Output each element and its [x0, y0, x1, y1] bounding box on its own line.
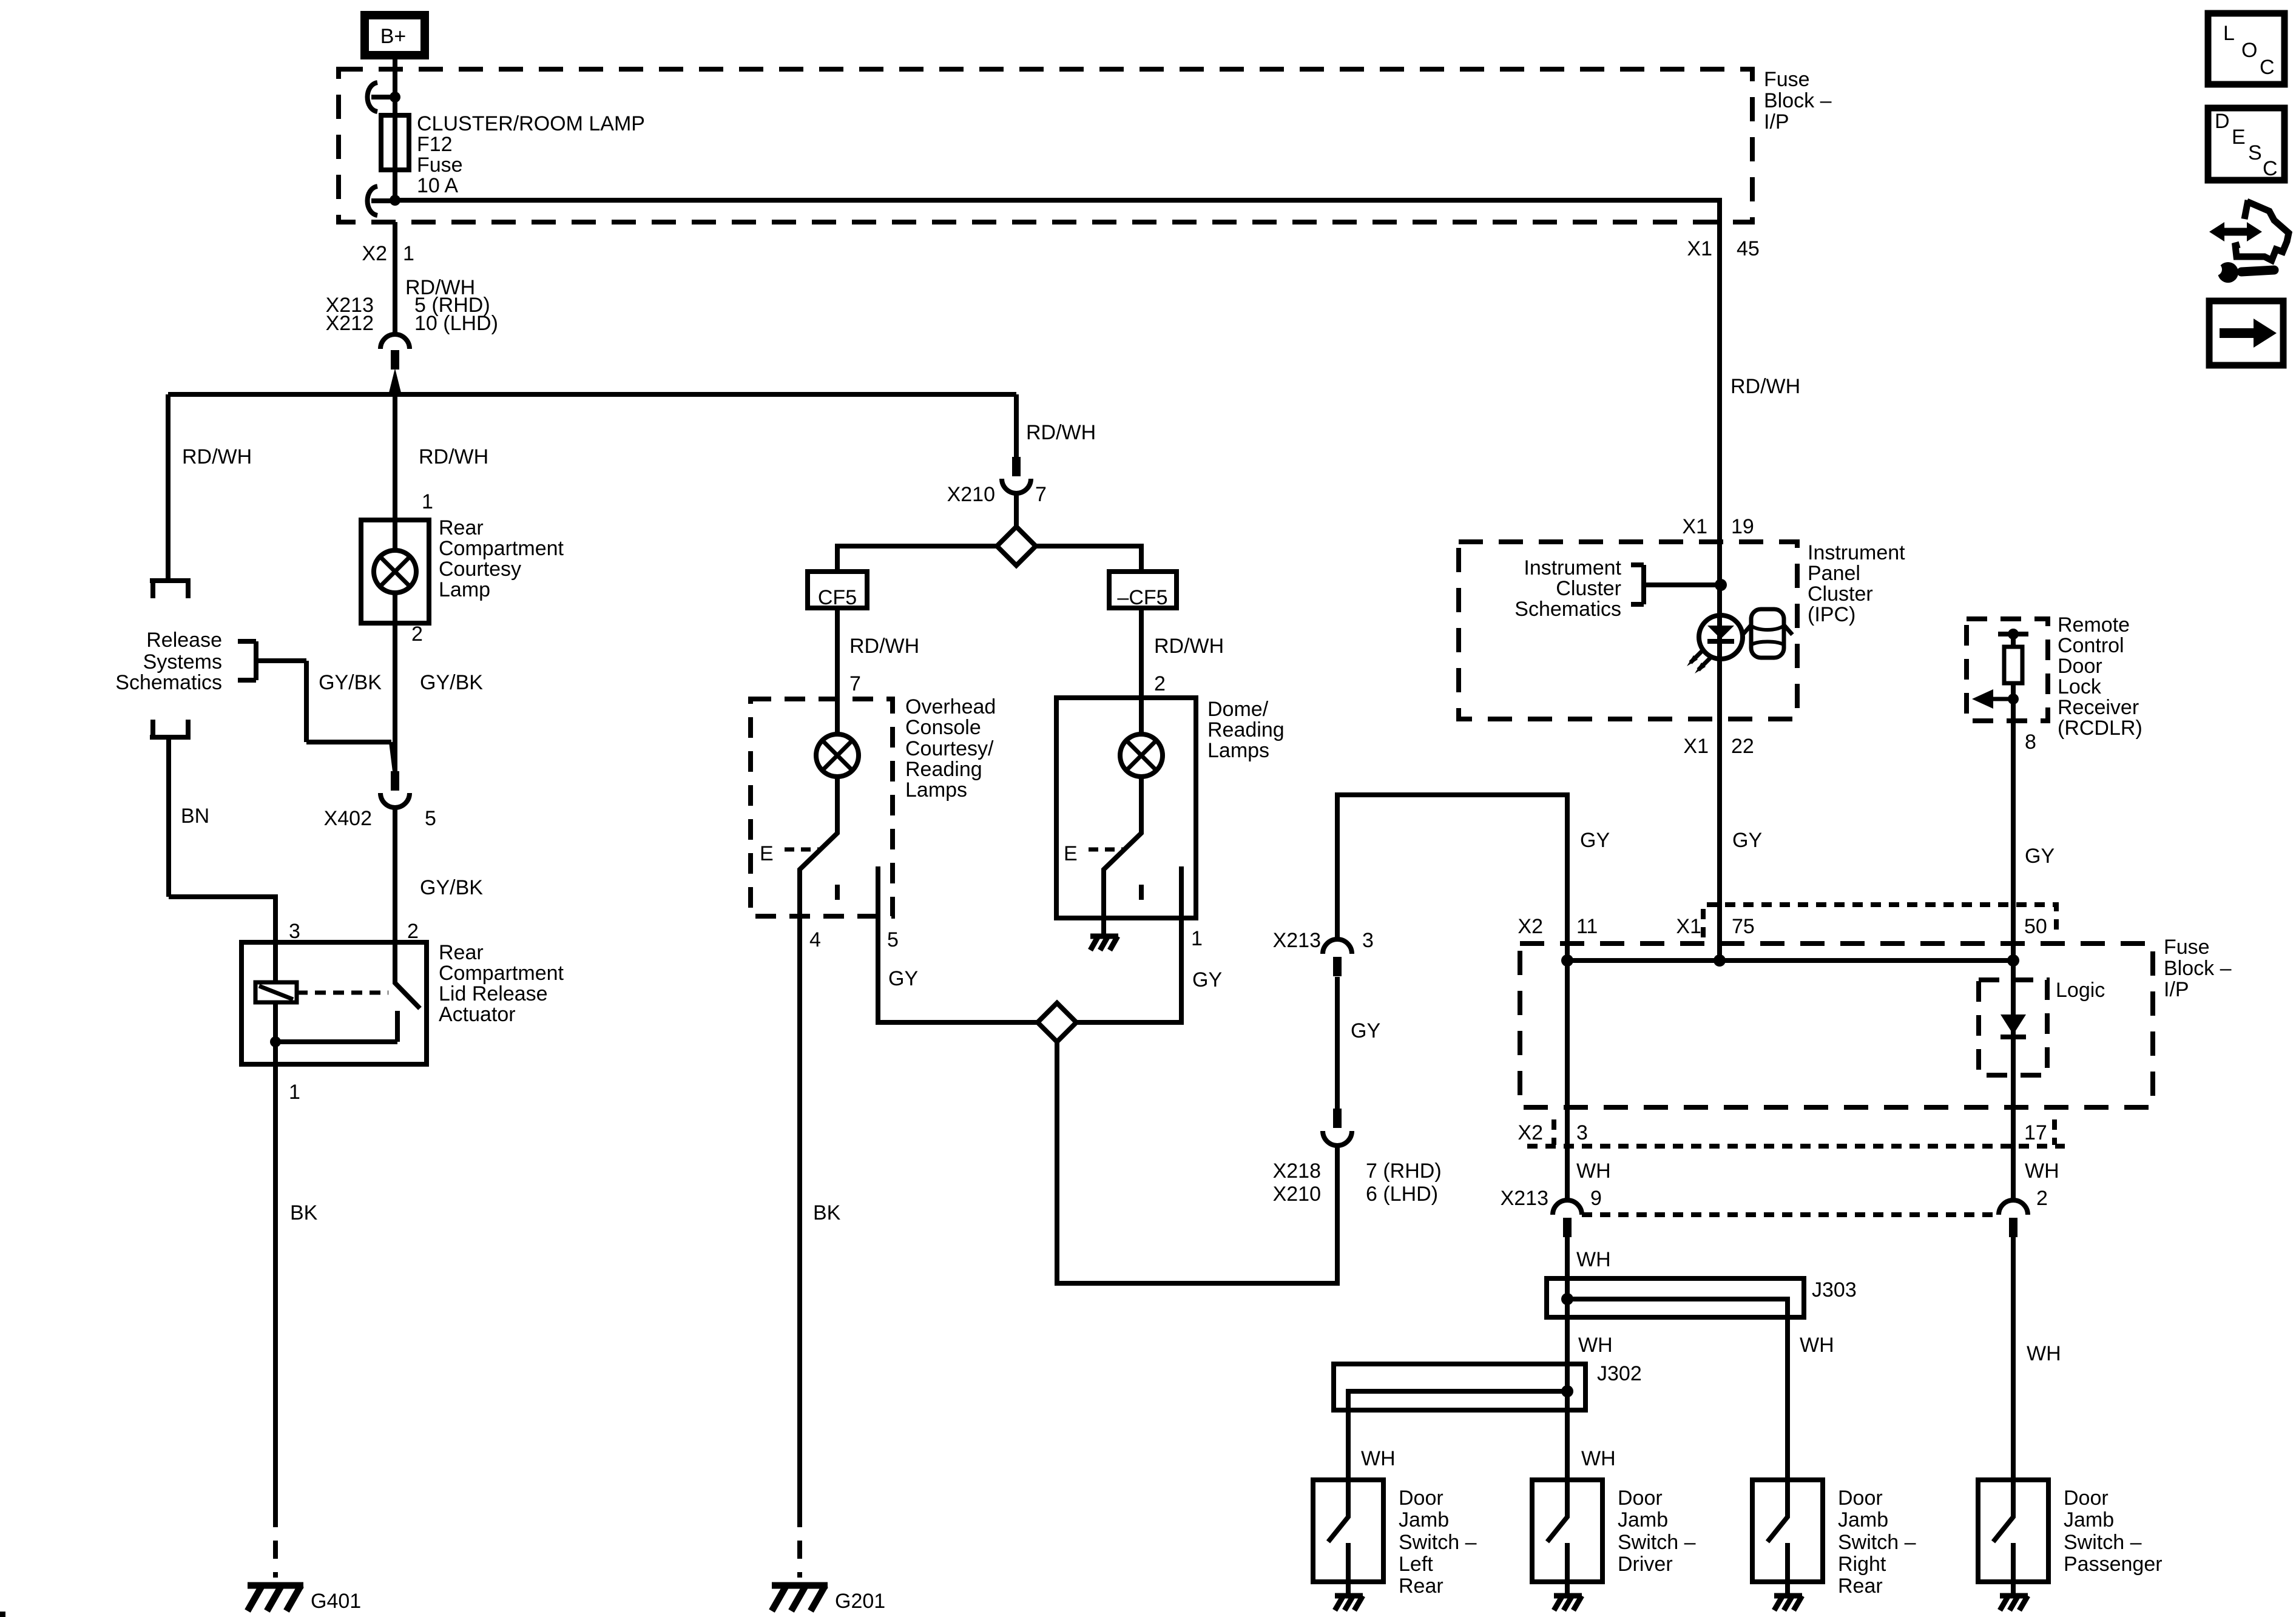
svg-text:9: 9 [1590, 1187, 1602, 1210]
svg-text:X402: X402 [324, 807, 372, 830]
svg-text:2: 2 [2036, 1187, 2048, 1210]
svg-text:GY: GY [1192, 968, 1222, 991]
svg-text:Door: Door [2064, 1487, 2109, 1510]
svg-text:Dome/: Dome/ [1207, 698, 1269, 721]
svg-text:WH: WH [2027, 1342, 2061, 1365]
svg-text:11: 11 [1576, 915, 1598, 938]
svg-text:Courtesy/: Courtesy/ [905, 737, 994, 760]
svg-text:GY: GY [1351, 1019, 1380, 1042]
svg-text:Lamps: Lamps [1207, 739, 1269, 762]
svg-text:X2: X2 [1518, 1121, 1543, 1144]
svg-text:E: E [760, 842, 774, 865]
svg-text:3: 3 [1362, 929, 1374, 952]
svg-text:E: E [1064, 842, 1078, 865]
svg-text:RD/WH: RD/WH [1026, 421, 1096, 444]
svg-text:Fuse: Fuse [1764, 68, 1810, 91]
svg-text:50: 50 [2024, 915, 2047, 938]
svg-text:GY: GY [1580, 829, 1610, 852]
svg-text:Fuse: Fuse [2164, 936, 2210, 959]
svg-text:D: D [2215, 110, 2230, 133]
svg-text:Compartment: Compartment [439, 962, 564, 985]
svg-text:Jamb: Jamb [1399, 1508, 1449, 1531]
svg-text:Control: Control [2058, 634, 2124, 657]
svg-text:Systems: Systems [143, 650, 222, 673]
svg-text:3: 3 [289, 920, 300, 943]
svg-text:Schematics: Schematics [115, 671, 222, 694]
svg-text:Lamp: Lamp [439, 578, 490, 601]
svg-text:Driver: Driver [1618, 1553, 1673, 1576]
svg-text:Instrument: Instrument [1808, 541, 1905, 564]
svg-text:3: 3 [1576, 1121, 1588, 1144]
svg-text:6 (LHD): 6 (LHD) [1366, 1183, 1438, 1206]
svg-text:7: 7 [849, 672, 861, 695]
svg-text:L: L [2223, 22, 2235, 45]
svg-text:4: 4 [809, 928, 821, 951]
svg-text:(RCDLR): (RCDLR) [2058, 717, 2142, 740]
svg-text:Cluster: Cluster [1808, 582, 1873, 606]
svg-text:X210: X210 [947, 483, 995, 506]
svg-text:1: 1 [289, 1081, 300, 1104]
svg-text:S: S [2248, 141, 2262, 164]
svg-text:1: 1 [1191, 927, 1203, 950]
svg-text:Door: Door [1838, 1487, 1883, 1510]
svg-text:WH: WH [1578, 1334, 1613, 1357]
svg-text:Rear: Rear [1399, 1575, 1443, 1598]
svg-text:X213: X213 [1501, 1187, 1548, 1210]
svg-text:WH: WH [1581, 1447, 1616, 1470]
svg-text:Logic: Logic [2056, 979, 2105, 1002]
svg-text:Remote: Remote [2058, 613, 2130, 636]
svg-text:Console: Console [905, 716, 981, 739]
svg-text:X1: X1 [1683, 735, 1709, 758]
svg-text:O: O [2241, 39, 2257, 62]
svg-text:I/P: I/P [2164, 978, 2189, 1001]
svg-text:1: 1 [422, 490, 433, 513]
svg-text:X1: X1 [1676, 915, 1701, 938]
svg-text:Lid Release: Lid Release [439, 982, 548, 1005]
svg-text:J302: J302 [1597, 1362, 1642, 1385]
svg-text:BK: BK [290, 1201, 318, 1224]
svg-text:GY/BK: GY/BK [319, 671, 382, 694]
svg-text:BK: BK [813, 1201, 841, 1224]
svg-text:Receiver: Receiver [2058, 696, 2139, 719]
svg-text:GY: GY [888, 967, 918, 990]
svg-text:Rear: Rear [1838, 1575, 1883, 1598]
svg-text:10 A: 10 A [417, 174, 458, 197]
svg-text:RD/WH: RD/WH [849, 635, 919, 658]
svg-text:X213: X213 [1273, 929, 1321, 952]
svg-text:C: C [2260, 56, 2275, 79]
svg-text:WH: WH [1361, 1447, 1396, 1470]
svg-text:Rear: Rear [439, 516, 484, 539]
svg-text:7 (RHD): 7 (RHD) [1366, 1160, 1442, 1183]
svg-text:GY: GY [2025, 845, 2055, 868]
svg-text:Rear: Rear [439, 941, 484, 964]
svg-text:Actuator: Actuator [439, 1003, 516, 1026]
svg-text:BN: BN [181, 805, 209, 828]
svg-text:Jamb: Jamb [2064, 1508, 2114, 1531]
svg-text:Jamb: Jamb [1618, 1508, 1668, 1531]
svg-text:Courtesy: Courtesy [439, 558, 521, 581]
svg-text:Reading: Reading [905, 758, 982, 781]
svg-text:RD/WH: RD/WH [1730, 375, 1800, 398]
svg-text:WH: WH [1576, 1248, 1611, 1271]
svg-text:G201: G201 [835, 1590, 885, 1613]
svg-text:X2: X2 [1518, 915, 1543, 938]
svg-text:2: 2 [411, 623, 423, 646]
svg-text:Right: Right [1838, 1553, 1886, 1576]
svg-text:Door: Door [2058, 655, 2102, 678]
svg-text:WH: WH [1576, 1160, 1611, 1183]
svg-text:(IPC): (IPC) [1808, 603, 1855, 626]
svg-text:RD/WH: RD/WH [419, 445, 488, 468]
svg-text:X218: X218 [1273, 1160, 1321, 1183]
svg-text:C: C [2263, 157, 2278, 180]
svg-text:Door: Door [1399, 1487, 1443, 1510]
svg-text:GY/BK: GY/BK [420, 876, 483, 899]
svg-text:B+: B+ [380, 25, 407, 48]
svg-text:Lamps: Lamps [905, 778, 967, 802]
svg-text:X210: X210 [1273, 1183, 1321, 1206]
svg-text:J303: J303 [1812, 1278, 1857, 1301]
svg-text:CLUSTER/ROOM LAMP: CLUSTER/ROOM LAMP [417, 112, 645, 135]
svg-text:2: 2 [1154, 672, 1166, 695]
svg-text:8: 8 [2025, 731, 2036, 754]
svg-text:19: 19 [1731, 515, 1754, 538]
svg-text:Left: Left [1399, 1553, 1433, 1576]
svg-text:Switch –: Switch – [2064, 1531, 2142, 1554]
svg-text:Switch –: Switch – [1838, 1531, 1916, 1554]
svg-text:X1: X1 [1687, 237, 1712, 260]
svg-text:GY: GY [1732, 829, 1762, 852]
svg-text:5: 5 [425, 807, 436, 830]
svg-text:1: 1 [403, 242, 414, 265]
svg-text:Lock: Lock [2058, 675, 2102, 698]
svg-text:Switch –: Switch – [1399, 1531, 1477, 1554]
svg-text:Cluster: Cluster [1556, 577, 1621, 600]
svg-text:WH: WH [1800, 1334, 1834, 1357]
svg-text:75: 75 [1732, 915, 1755, 938]
svg-text:Door: Door [1618, 1487, 1663, 1510]
svg-text:Overhead: Overhead [905, 695, 996, 718]
svg-text:I/P: I/P [1764, 110, 1789, 133]
svg-text:Block –: Block – [1764, 89, 1832, 112]
svg-text:X212: X212 [326, 312, 374, 335]
svg-text:X2: X2 [362, 242, 387, 265]
svg-text:Instrument: Instrument [1524, 556, 1621, 579]
svg-text:45: 45 [1737, 237, 1760, 260]
svg-text:F12: F12 [417, 133, 453, 156]
svg-text:Block –: Block – [2164, 957, 2232, 980]
svg-text:Switch –: Switch – [1618, 1531, 1696, 1554]
svg-text:Schematics: Schematics [1514, 598, 1621, 621]
svg-text:17: 17 [2024, 1121, 2047, 1144]
svg-text:–CF5: –CF5 [1117, 586, 1167, 609]
svg-text:WH: WH [2025, 1160, 2059, 1183]
svg-text:Jamb: Jamb [1838, 1508, 1888, 1531]
svg-text:10 (LHD): 10 (LHD) [414, 312, 498, 335]
svg-text:E: E [2232, 126, 2246, 149]
svg-text:Reading: Reading [1207, 718, 1285, 741]
svg-text:G401: G401 [311, 1590, 361, 1613]
svg-text:Compartment: Compartment [439, 537, 564, 560]
svg-text:Passenger: Passenger [2064, 1553, 2163, 1576]
svg-text:22: 22 [1731, 735, 1754, 758]
svg-text:5: 5 [887, 928, 899, 951]
svg-text:RD/WH: RD/WH [1154, 635, 1224, 658]
svg-text:Release: Release [146, 629, 222, 652]
svg-text:7: 7 [1035, 483, 1047, 506]
svg-text:CF5: CF5 [818, 586, 857, 609]
svg-text:Fuse: Fuse [417, 154, 463, 177]
svg-text:2: 2 [407, 920, 419, 943]
svg-text:Panel: Panel [1808, 562, 1860, 585]
svg-text:X1: X1 [1682, 515, 1707, 538]
svg-text:RD/WH: RD/WH [182, 445, 252, 468]
svg-text:GY/BK: GY/BK [420, 671, 483, 694]
